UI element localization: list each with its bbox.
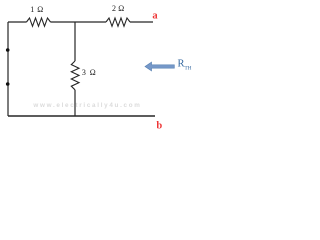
wire left vertical	[7, 22, 9, 116]
wire top-middle segment	[51, 21, 107, 23]
svg-text:2Ω: 2Ω	[112, 4, 124, 13]
svg-text:www.electrically4u.com: www.electrically4u.com	[32, 102, 141, 109]
resistor R2 2 ohm	[106, 18, 130, 26]
svg-text:b: b	[156, 120, 162, 131]
wire middle branch lower	[74, 90, 76, 116]
wire middle branch upper	[74, 22, 76, 61]
svg-text:1Ω: 1Ω	[30, 5, 43, 14]
arrow Rth pointing left	[145, 62, 174, 71]
junction dot upper	[6, 48, 10, 52]
wire bottom rail to terminal b	[8, 115, 155, 117]
resistor R1 1 ohm	[27, 18, 51, 26]
wire top-right segment to terminal a	[130, 21, 153, 23]
resistor R3 3 ohm	[71, 61, 79, 90]
wire top-left segment	[8, 21, 27, 23]
svg-text:3Ω: 3Ω	[82, 68, 96, 77]
svg-text:a: a	[152, 10, 158, 21]
junction dot lower	[6, 82, 10, 86]
